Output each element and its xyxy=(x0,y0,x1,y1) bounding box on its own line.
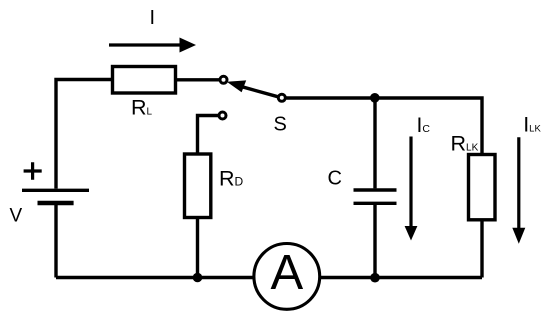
svg-text:V: V xyxy=(10,206,23,227)
svg-text:IC: IC xyxy=(417,114,431,137)
svg-text:C: C xyxy=(328,168,342,190)
svg-text:RD: RD xyxy=(219,166,244,190)
svg-text:I: I xyxy=(150,7,156,29)
svg-text:A: A xyxy=(270,246,303,300)
svg-text:RL: RL xyxy=(131,96,153,120)
svg-text:ILK: ILK xyxy=(523,113,541,137)
svg-text:S: S xyxy=(274,113,287,135)
svg-text:RLK: RLK xyxy=(451,132,479,156)
